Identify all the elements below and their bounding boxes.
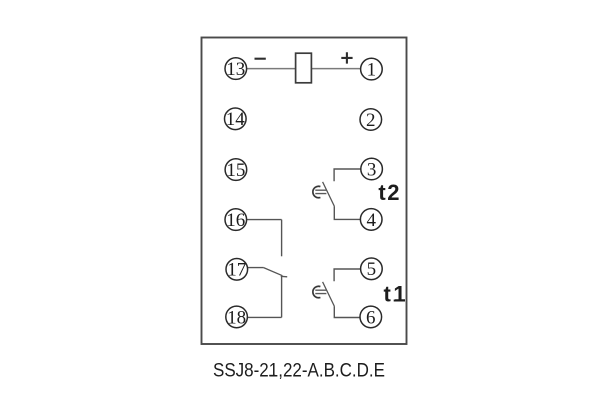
caption digit-1 base serif: [269, 375, 275, 377]
svg-text:SSJ8-21,22-A.B.C.D.E: SSJ8-21,22-A.B.C.D.E: [213, 359, 385, 381]
contact t2 blade: [323, 182, 335, 206]
wire 17 stub: [248, 267, 264, 269]
polarity plus: [341, 52, 352, 63]
terminal 17: [226, 259, 248, 281]
svg-text:4: 4: [366, 210, 376, 231]
svg-text:5: 5: [367, 259, 377, 280]
wire to 6: [334, 306, 360, 317]
wire 18 horizontal: [247, 316, 281, 318]
terminal 18: [226, 306, 248, 328]
terminal 14: [225, 108, 247, 130]
terminal 6: [360, 306, 382, 328]
wire from 5: [334, 269, 361, 281]
wire 16 vertical (fixed contact): [281, 220, 283, 257]
wire from 3: [334, 169, 361, 181]
terminal 13: [225, 58, 247, 80]
contact t1 blade: [323, 282, 335, 306]
terminal 5: [361, 258, 383, 280]
terminal 4: [360, 209, 382, 231]
t2 delay arrow: [315, 190, 326, 193]
blade tip tick: [281, 275, 287, 278]
svg-text:6: 6: [366, 307, 376, 328]
terminal 3: [361, 158, 383, 180]
svg-text:13: 13: [226, 59, 245, 80]
wire 13 to coil: [247, 68, 296, 70]
terminal 15: [225, 159, 247, 181]
terminal 1: [361, 58, 383, 80]
t1 digit base serif: [394, 300, 404, 302]
svg-text:3: 3: [367, 159, 377, 180]
coil (rectangle): [296, 53, 312, 83]
t1 delay arrow: [315, 290, 326, 293]
wire 18 vertical: [281, 276, 283, 317]
svg-text:16: 16: [226, 210, 245, 231]
enclosure box: [202, 38, 407, 345]
wire to 4: [334, 206, 360, 219]
polarity minus: [255, 58, 266, 60]
wire coil to 1: [311, 68, 360, 70]
wire 16 horizontal: [247, 219, 282, 221]
svg-text:1: 1: [367, 60, 377, 81]
terminal 2: [360, 109, 382, 131]
svg-text:14: 14: [226, 109, 246, 130]
svg-text:t1: t1: [384, 281, 409, 306]
svg-text:2: 2: [366, 110, 376, 131]
svg-text:18: 18: [227, 307, 246, 328]
svg-text:15: 15: [226, 160, 245, 181]
terminal 16: [225, 209, 247, 231]
svg-text:17: 17: [227, 260, 246, 281]
svg-text:t2: t2: [378, 180, 401, 205]
contact blade 17: [264, 268, 283, 276]
